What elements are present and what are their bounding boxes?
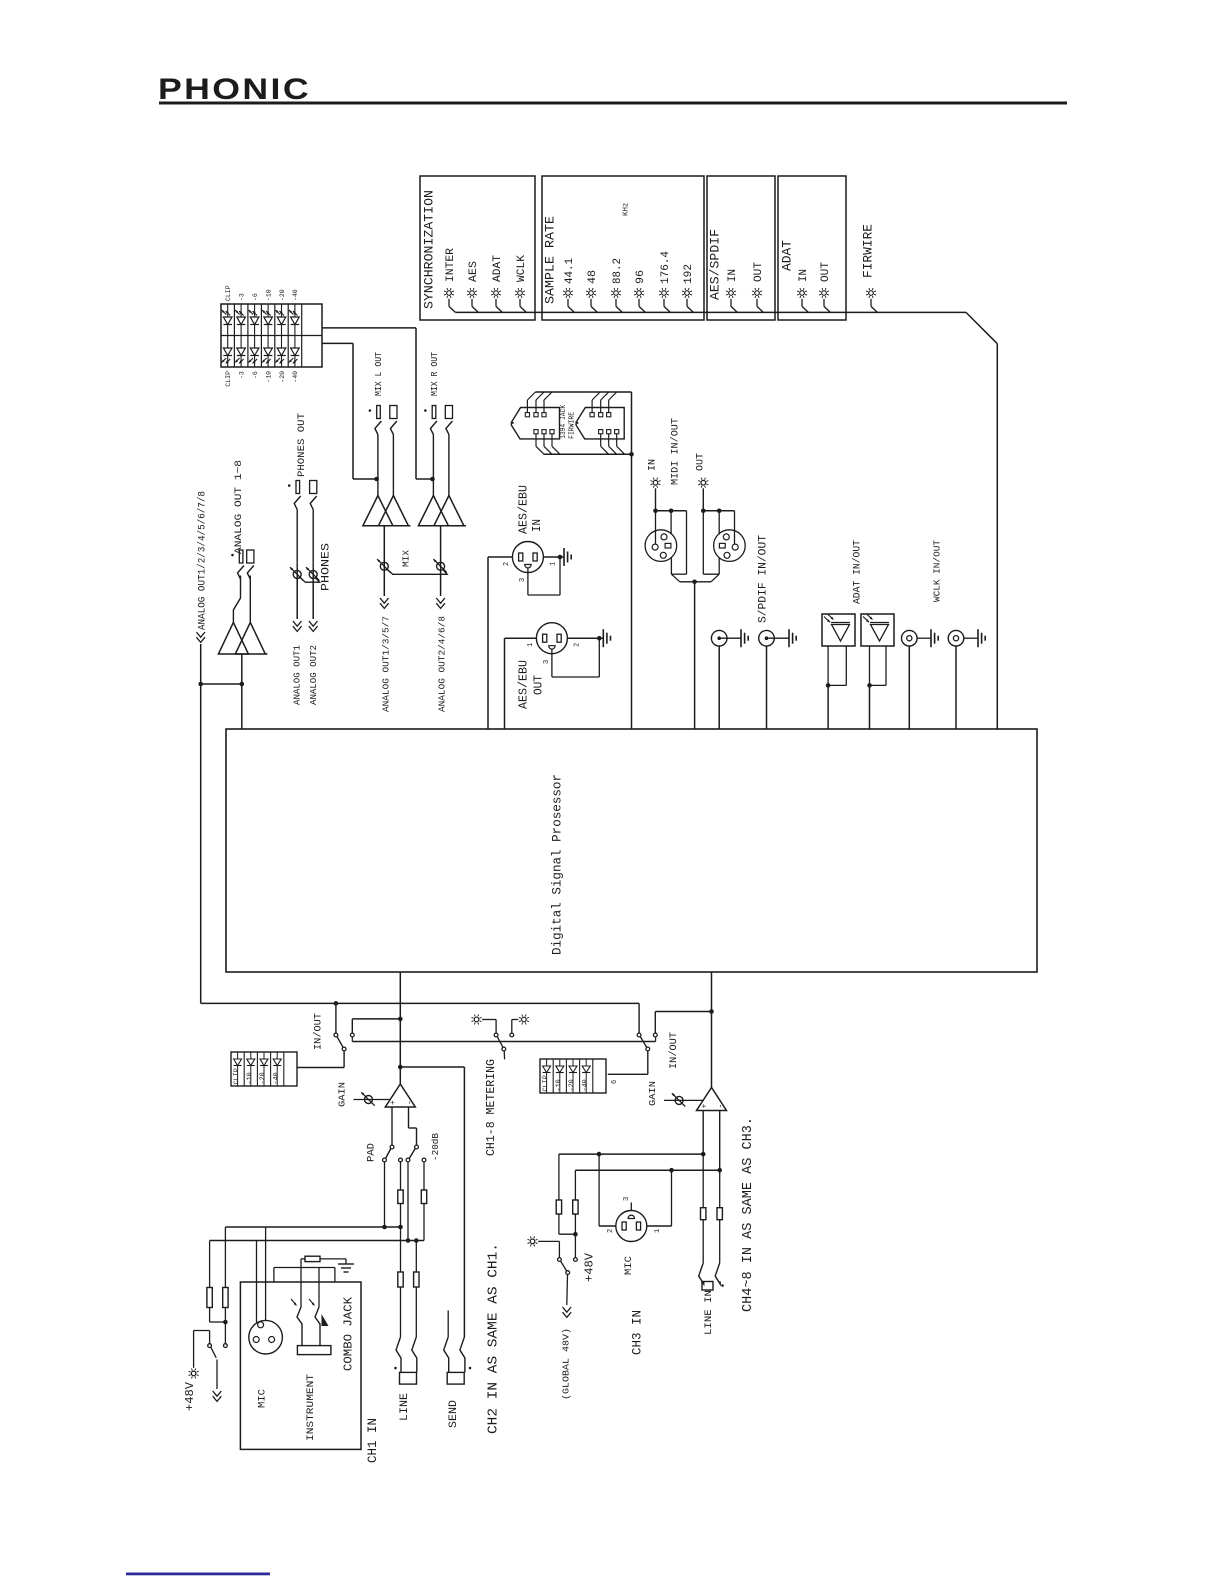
COMBO JACK box CH1 [240, 1282, 380, 1463]
svg-text:KHz: KHz [623, 202, 631, 216]
svg-text:IN/OUT: IN/OUT [312, 1013, 324, 1050]
svg-text:INSTRUMENT: INSTRUMENT [305, 1374, 317, 1441]
resistor CH1 phantom R5 [223, 1227, 228, 1344]
svg-text:+48V: +48V [183, 1381, 197, 1411]
LED 48 kHz (sample rate) [586, 270, 599, 312]
pot CH1 GAIN [336, 1082, 390, 1107]
svg-text:ADAT: ADAT [780, 240, 795, 271]
svg-text:2: 2 [574, 643, 582, 647]
RCA S/PDIF OUT [759, 630, 775, 646]
MIX level LED meter array (CLIP/-3/-6/-10/-20/-40, dual row) [221, 285, 322, 386]
ground AES/EBU OUT [567, 629, 610, 647]
svg-text:AES/EBU: AES/EBU [518, 660, 531, 709]
svg-text:WCLK: WCLK [516, 255, 528, 282]
jack PHONES OUT [288, 413, 317, 510]
LED AES/SPDIF OUT [752, 262, 765, 313]
svg-text:CLIP: CLIP [542, 1075, 550, 1091]
svg-text:1: 1 [527, 643, 535, 647]
LED INTER (synchronization) [444, 248, 457, 313]
RCA S/PDIF IN [711, 630, 727, 646]
LED 192 kHz (sample rate) [682, 264, 695, 312]
SAMPLE RATE box [542, 176, 704, 320]
AES/SPDIF box [707, 176, 775, 320]
node MIDI IN feed [653, 509, 686, 514]
wire meter row2 to MIX L amp [322, 343, 353, 479]
SYNCHRONIZATION box [420, 176, 535, 320]
wire S/PDIF IN to DSP [718, 646, 720, 729]
LED 176.4 kHz (sample rate) [659, 251, 672, 313]
label S/PDIF IN/OUT [757, 535, 769, 623]
svg-text:ANALOG OUT1/3/5/7: ANALOG OUT1/3/5/7 [380, 616, 391, 712]
svg-text:OUT: OUT [820, 262, 832, 282]
jack CH1 LINE [394, 1337, 417, 1421]
svg-text:2: 2 [607, 1229, 615, 1233]
net label CH1 global 48V [213, 1360, 222, 1402]
wire ANALOG OUT to DSP [241, 684, 243, 729]
wire CH3 switch to DSP line [655, 1009, 714, 1033]
switch CH1 +48V [208, 1344, 228, 1358]
svg-text:3: 3 [519, 578, 527, 582]
svg-text:OUT: OUT [696, 453, 707, 471]
amp MIX L balanced driver [363, 496, 411, 526]
svg-text:SEND: SEND [448, 1400, 460, 1428]
wire AES/EBU IN to DSP [488, 557, 512, 729]
wire ANALOG OUT bus down to CH1 switch [200, 684, 202, 1003]
wire WCLK OUT to DSP [955, 646, 957, 729]
svg-text:MIX: MIX [400, 550, 411, 567]
ADAT optical port IN [822, 614, 855, 646]
svg-text:-3: -3 [238, 293, 245, 301]
wire AES/EBU OUT pin3 strap [552, 640, 599, 677]
resistor CH3 line R10/R11 [701, 1154, 723, 1263]
svg-text:CLIP: CLIP [225, 371, 232, 387]
LED MIDI OUT [696, 453, 709, 511]
wire AES/EBU OUT to DSP [505, 638, 537, 729]
svg-text:PHONES: PHONES [320, 543, 332, 591]
svg-text:ADAT: ADAT [492, 255, 504, 282]
footer bar [126, 1573, 270, 1576]
svg-text:-6: -6 [252, 371, 259, 379]
wire CH1 switch common to meter [297, 1051, 344, 1068]
wire MIDI IN to merge [656, 511, 687, 582]
svg-text:-40: -40 [292, 289, 299, 301]
wire DSP to CH3 opamp [711, 972, 713, 1088]
jack CH1 INSTRUMENT [291, 1259, 331, 1441]
resistor CH3 phantom R8 [556, 1154, 578, 1236]
LED 88.2 kHz (sample rate) [611, 258, 624, 312]
svg-text:ANALOG OUT2: ANALOG OUT2 [308, 645, 319, 705]
label MIDI IN/OUT [670, 418, 682, 485]
svg-text:PHONES OUT: PHONES OUT [296, 413, 308, 477]
net label GLOBAL 48V [562, 1275, 572, 1401]
amp ANALOG OUT balanced driver [218, 622, 267, 654]
svg-text:MIX L OUT: MIX L OUT [374, 351, 384, 396]
svg-text:48: 48 [587, 270, 599, 284]
ground WCLK OUT [964, 629, 985, 647]
pot PHONES R [306, 510, 319, 581]
wire CH3 phantom bus minus [575, 1168, 722, 1173]
svg-text:-10: -10 [246, 1072, 254, 1084]
svg-text:FIRWIRE: FIRWIRE [568, 412, 576, 439]
svg-text:CH1-8 METERING: CH1-8 METERING [485, 1059, 498, 1156]
ADAT optical port OUT [861, 614, 894, 646]
svg-text:1394 JACK: 1394 JACK [560, 404, 568, 439]
svg-text:+: + [700, 1104, 709, 1109]
LED AES (synchronization) [467, 261, 480, 313]
svg-text:3: 3 [623, 1197, 631, 1201]
pot PHONES L [290, 510, 303, 581]
label PHONES [320, 543, 332, 591]
svg-text:SAMPLE RATE: SAMPLE RATE [543, 216, 558, 304]
svg-text:6: 6 [611, 1080, 619, 1084]
jack MIX L OUT [369, 351, 397, 434]
svg-text:FIRWIRE: FIRWIRE [861, 224, 876, 278]
header rule [159, 102, 1067, 105]
svg-text:CLIP: CLIP [233, 1068, 241, 1084]
XLR AES/EBU IN [503, 485, 558, 582]
XLR CH1 MIC [249, 1320, 283, 1408]
LED ADAT OUT [819, 262, 832, 313]
svg-text:-: - [405, 1100, 414, 1105]
svg-text:GAIN: GAIN [647, 1081, 658, 1106]
amp MIX R balanced driver [418, 496, 466, 526]
LED CH3 +48V [528, 1236, 597, 1282]
resistor CH3 phantom R9 [573, 1170, 578, 1257]
wire CH1 send tap [400, 1067, 464, 1337]
svg-text:MIX R OUT: MIX R OUT [430, 351, 440, 396]
svg-text:CH3 IN: CH3 IN [631, 1310, 645, 1355]
wire ANALOG OUT jack to driver [233, 576, 250, 623]
LED MIDI IN [648, 459, 661, 511]
LED AES/SPDIF IN [726, 269, 739, 312]
wire status LED bus to DSP [456, 312, 998, 729]
wire MIX pot wiper link [387, 569, 447, 574]
svg-text:96: 96 [635, 270, 647, 284]
pot MIX R level [433, 526, 446, 573]
label MIX [400, 550, 411, 567]
svg-text:CLIP: CLIP [225, 285, 232, 301]
wire CH1 opamp inputs [392, 1107, 417, 1145]
note CH2 IN AS SAME AS CH1. [486, 1243, 502, 1434]
wire AES/EBU IN pin3 strap [528, 559, 560, 595]
wire CH3 mic pin1 [647, 1170, 672, 1226]
jack CH1 SEND [444, 1310, 472, 1428]
jack MIX R OUT [424, 351, 452, 434]
pot CH3 GAIN [647, 1081, 703, 1107]
svg-text:INTER: INTER [445, 248, 457, 282]
wire MIX R jack to driver [416, 435, 449, 496]
XLR CH3 MIC [607, 1197, 662, 1275]
label ADAT IN/OUT [852, 540, 864, 604]
wire CH3 mic pin2 [599, 1154, 616, 1226]
switch CH1 IN/OUT [312, 1003, 354, 1051]
svg-text:PAD: PAD [367, 1143, 378, 1162]
svg-text:IN: IN [727, 269, 739, 282]
svg-text:ANALOG OUT2/4/6/8: ANALOG OUT2/4/6/8 [436, 616, 447, 712]
svg-text:-10: -10 [265, 371, 272, 383]
svg-text:-20: -20 [279, 371, 286, 383]
svg-text:2: 2 [503, 562, 511, 566]
wire ADAT OUT to DSP [867, 646, 886, 729]
net label ANALOG OUT2/4/6/8 [436, 570, 447, 712]
svg-text:1: 1 [550, 562, 558, 566]
pot MIX L level [377, 526, 390, 573]
jack ANALOG OUT 1~8 [231, 460, 254, 579]
svg-text:SYNCHRONIZATION: SYNCHRONIZATION [422, 190, 437, 309]
ground CH1 combo [338, 1259, 354, 1272]
svg-text:176.4: 176.4 [660, 251, 672, 284]
svg-text:MIDI IN/OUT: MIDI IN/OUT [670, 418, 682, 485]
svg-text:AES/SPDIF: AES/SPDIF [708, 229, 723, 300]
FireWire 1394 jack 1 [511, 392, 560, 454]
svg-text:+48V: +48V [582, 1252, 596, 1282]
switch CH3 IN/OUT [637, 1003, 680, 1069]
svg-text:-20dB: -20dB [431, 1132, 441, 1161]
svg-text:AES: AES [468, 261, 480, 282]
resistor CH1 phantom R6 [207, 1241, 228, 1325]
op-amp CH1 preamp [385, 1084, 415, 1107]
svg-text:-40: -40 [581, 1079, 589, 1091]
net label ANALOG OUT1/3/5/7 [380, 570, 391, 712]
svg-text:1: 1 [654, 1229, 662, 1233]
LED WCLK (synchronization) [515, 255, 528, 313]
label KHz [623, 202, 631, 216]
svg-text:S/PDIF IN/OUT: S/PDIF IN/OUT [757, 535, 769, 623]
ground S/PDIF IN [721, 629, 748, 647]
note CH4~8 IN AS SAME AS CH3. [741, 1117, 756, 1312]
resistor CH1 pad R2 [210, 1162, 427, 1243]
svg-text:88.2: 88.2 [612, 258, 624, 284]
Phonic logo [158, 73, 311, 106]
LED ADAT IN [797, 269, 810, 312]
svg-text:OUT: OUT [753, 262, 765, 282]
switch CH1-8 METERING [485, 1033, 514, 1156]
ground AES/EBU IN [543, 548, 571, 566]
svg-text:IN: IN [531, 519, 544, 532]
wire DSP to CH1 opamp [398, 972, 403, 1084]
svg-text:MIC: MIC [623, 1256, 635, 1275]
wire MIDI merge to DSP [680, 580, 711, 730]
svg-text:+: + [389, 1100, 398, 1105]
switch CH3 +48V [558, 1258, 578, 1275]
DSP block Digital Signal Prosessor [226, 729, 1037, 972]
svg-text:-40: -40 [292, 371, 299, 383]
LED 96 kHz (sample rate) [634, 270, 647, 312]
resistor CH1 line input R3/R4 [398, 1227, 419, 1337]
svg-text:WCLK IN/OUT: WCLK IN/OUT [931, 540, 942, 602]
wire CH1 mic pins up [257, 1227, 335, 1323]
svg-text:AES/EBU: AES/EBU [518, 485, 531, 534]
svg-text:ANALOG OUT 1~8: ANALOG OUT 1~8 [233, 460, 245, 554]
net label ANALOG OUT1/2/3/4/5/6/7/8 [196, 491, 208, 684]
svg-text:IN/OUT: IN/OUT [668, 1032, 680, 1069]
DIN connector MIDI IN [645, 530, 677, 562]
svg-text:(GLOBAL 48V): (GLOBAL 48V) [562, 1328, 572, 1400]
svg-text:-: - [717, 1104, 726, 1109]
svg-text:-40: -40 [272, 1072, 280, 1084]
node MIDI OUT feed [701, 509, 735, 514]
svg-text:3: 3 [543, 660, 551, 664]
wire analog-out bus CH1/CH3 [201, 1001, 639, 1006]
CH3 LED meter (CLIP/-10/-20/-40) [540, 1059, 619, 1093]
svg-text:IN: IN [648, 459, 659, 471]
resistor CH1 pad R1 [225, 1162, 403, 1229]
LED 44.1 kHz (sample rate) [563, 258, 576, 313]
svg-text:LINE: LINE [399, 1393, 411, 1421]
svg-text:LINE IN: LINE IN [703, 1290, 715, 1335]
svg-text:MIC: MIC [256, 1389, 268, 1408]
svg-text:CH1 IN: CH1 IN [366, 1418, 380, 1463]
svg-text:PHONIC: PHONIC [158, 73, 311, 106]
wire MIX L jack to driver [353, 435, 393, 496]
net label ANALOG OUT2 [308, 578, 319, 705]
svg-text:-20: -20 [259, 1072, 267, 1084]
svg-text:CH4~8 IN AS SAME AS CH3.: CH4~8 IN AS SAME AS CH3. [741, 1117, 756, 1312]
jack CH3 LINE IN [699, 1263, 724, 1335]
wire S/PDIF OUT to DSP [766, 646, 768, 729]
svg-text:Digital Signal Prosessor: Digital Signal Prosessor [551, 774, 565, 955]
label 1394 JACK FIRWIRE [560, 404, 576, 439]
svg-text:-10: -10 [265, 289, 272, 301]
BNC WCLK IN [902, 630, 918, 646]
FireWire 1394 jack 2 [576, 392, 625, 454]
LED FIRWIRE [861, 224, 878, 313]
svg-text:COMBO JACK: COMBO JACK [343, 1297, 356, 1371]
wire WCLK IN to DSP [908, 646, 910, 729]
ground WCLK IN [917, 629, 938, 647]
LED ADAT (synchronization) [491, 255, 504, 313]
wire CH1 switch to DSP line [352, 1017, 402, 1034]
wire PHONES pot wiper link [300, 577, 320, 582]
svg-text:ANALOG OUT1: ANALOG OUT1 [291, 645, 302, 705]
wire CH3 opamp inputs [703, 1111, 720, 1171]
svg-text:GAIN: GAIN [336, 1082, 347, 1107]
svg-text:OUT: OUT [533, 675, 546, 695]
label CH3 IN [631, 1310, 645, 1355]
LED metering select B [512, 1015, 529, 1034]
svg-text:CH2 IN AS SAME AS CH1.: CH2 IN AS SAME AS CH1. [486, 1243, 502, 1434]
svg-text:-6: -6 [252, 293, 259, 301]
ADAT box [778, 176, 846, 320]
ground S/PDIF OUT [768, 629, 796, 647]
wire FireWire buses to DSP [535, 392, 633, 729]
net label ANALOG OUT1 [291, 578, 302, 705]
DIN connector MIDI OUT [714, 530, 746, 562]
wire MIDI OUT to merge [703, 511, 734, 582]
svg-text:44.1: 44.1 [564, 258, 576, 284]
svg-text:192: 192 [683, 264, 695, 284]
switch CH1 PAD [367, 1132, 442, 1162]
wire middle bus CH1-CH3 [352, 1037, 655, 1042]
wire ADAT IN to DSP [826, 646, 847, 729]
svg-text:ADAT IN/OUT: ADAT IN/OUT [852, 540, 864, 604]
svg-text:IN: IN [798, 269, 810, 282]
svg-text:-10: -10 [555, 1079, 563, 1091]
op-amp CH3 preamp [697, 1088, 727, 1111]
node ANALOG OUT junction [198, 654, 244, 686]
wire CH3 phantom bus plus [559, 1152, 706, 1157]
LED CH1 +48V [183, 1331, 210, 1412]
svg-text:-3: -3 [238, 371, 245, 379]
svg-text:-20: -20 [279, 289, 286, 301]
XLR AES/EBU OUT [518, 623, 582, 709]
LED metering select A [472, 1015, 497, 1034]
BNC WCLK OUT [948, 630, 964, 646]
svg-text:ANALOG OUT1/2/3/4/5/6/7/8: ANALOG OUT1/2/3/4/5/6/7/8 [196, 491, 208, 630]
wire meter row1 to MIX R amp [322, 328, 416, 479]
wire CH3 switch common to meter [608, 1051, 648, 1074]
resistor CH1 instrument R7 [301, 1256, 346, 1261]
CH1 LED meter (CLIP/-10/-20/-40) [231, 1052, 297, 1086]
svg-text:-20: -20 [568, 1079, 576, 1091]
label WCLK IN/OUT [931, 540, 942, 602]
